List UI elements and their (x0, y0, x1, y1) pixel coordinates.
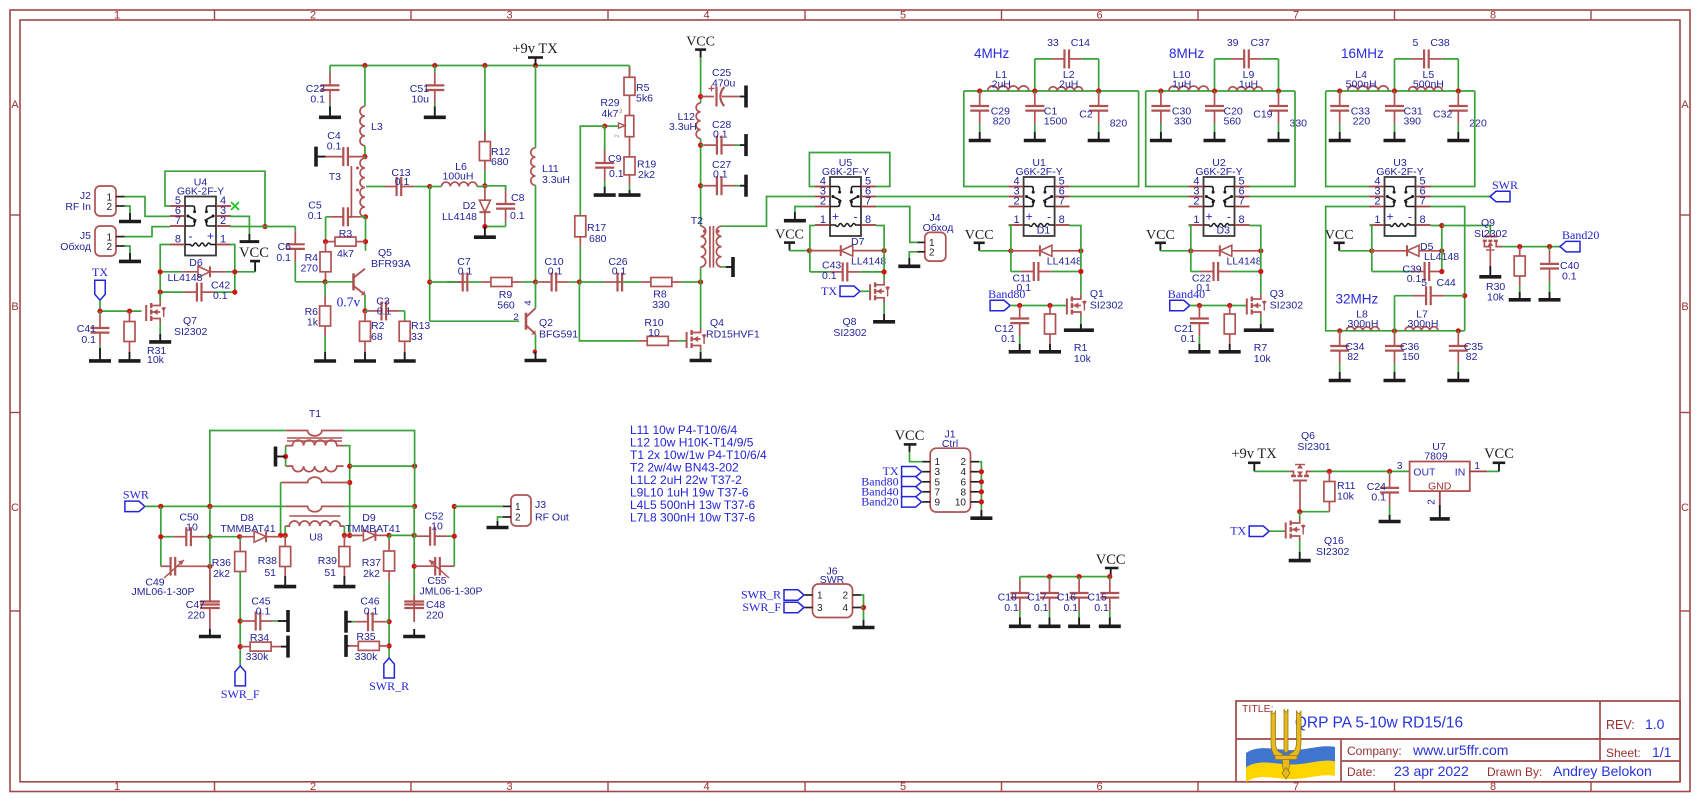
capacitor C10 (536, 273, 580, 292)
junction (1547, 244, 1552, 249)
svg-text:10u: 10u (411, 94, 429, 106)
wire (209, 506, 211, 536)
ground (119, 213, 141, 222)
global label SWR_F (235, 666, 246, 686)
svg-text:2: 2 (106, 242, 112, 253)
ground (119, 253, 141, 261)
resistor R7 (1224, 306, 1235, 345)
svg-text:OUT: OUT (1413, 467, 1436, 479)
svg-text:REV:: REV: (1606, 718, 1635, 732)
svg-text:2: 2 (1374, 196, 1380, 208)
capacitor C15 (1100, 577, 1119, 618)
transistor Q7 (146, 301, 166, 323)
svg-text:1.0: 1.0 (1645, 716, 1665, 732)
svg-text:VCC: VCC (239, 245, 269, 261)
capacitor C24 (1380, 471, 1399, 515)
transformer T3 (351, 158, 365, 218)
svg-text:10: 10 (186, 522, 198, 534)
junction (412, 533, 417, 538)
transistor Q7 labels (174, 315, 207, 338)
wire (700, 58, 702, 103)
svg-text:10k: 10k (1254, 353, 1272, 365)
svg-text:SI2302: SI2302 (1090, 300, 1123, 312)
svg-text:1: 1 (1474, 461, 1480, 472)
svg-text:T3: T3 (329, 171, 341, 183)
resistor R36 (235, 537, 246, 572)
svg-text:82: 82 (1347, 351, 1359, 363)
svg-text:-: - (854, 210, 858, 224)
svg-text:560: 560 (497, 300, 515, 312)
svg-text:VCC: VCC (1325, 228, 1354, 243)
diode D3 (1191, 245, 1261, 256)
relay U2 pin numbers (1193, 176, 1244, 227)
resistor R37 (384, 535, 395, 581)
svg-text:5k6: 5k6 (636, 93, 653, 105)
svg-text:SI2302: SI2302 (833, 327, 866, 339)
svg-text:R3: R3 (339, 228, 353, 240)
svg-text:1: 1 (515, 502, 521, 513)
wire (145, 505, 285, 507)
resistor R37 labels (362, 557, 381, 580)
svg-text:SWR: SWR (820, 574, 845, 586)
wire (921, 481, 924, 483)
ground (1088, 132, 1110, 141)
svg-text:BFG591: BFG591 (539, 329, 578, 341)
resistor R39 (339, 535, 350, 576)
wire (344, 446, 350, 536)
wire (125, 197, 171, 217)
svg-text:C9: C9 (608, 153, 622, 165)
inductor L5 labels (1413, 69, 1444, 91)
diode D3 labels (1217, 225, 1262, 268)
resistor R31 labels (147, 345, 166, 366)
wire (1160, 250, 1190, 252)
capacitor C2 (1089, 91, 1108, 132)
svg-text:Band20: Band20 (1562, 228, 1599, 242)
wire (1487, 470, 1499, 472)
capacitor C24 labels (1367, 481, 1386, 504)
global label TX (902, 466, 922, 477)
svg-text:D6: D6 (189, 257, 203, 269)
svg-text:0.1: 0.1 (364, 606, 379, 618)
wire (1189, 226, 1191, 272)
svg-text:2: 2 (929, 248, 935, 259)
capacitor C3 (365, 301, 405, 320)
wire (1254, 470, 1289, 472)
svg-text:J3: J3 (535, 499, 546, 511)
svg-text:G6K-2F-Y: G6K-2F-Y (177, 186, 224, 198)
svg-text:VCC: VCC (965, 228, 994, 243)
capacitor C19 labels (1253, 109, 1307, 130)
relay U4 (170, 197, 231, 256)
diode D9 (350, 530, 389, 541)
frame column ticks (215, 10, 1592, 792)
transformer U8 secondary (285, 521, 344, 526)
wire (1070, 91, 1139, 187)
junction (977, 88, 982, 93)
junction (698, 143, 703, 148)
capacitor C52 (414, 527, 454, 546)
svg-text:Q1: Q1 (1090, 288, 1104, 300)
junction (1517, 244, 1522, 249)
inductor L7 labels (1408, 309, 1439, 331)
svg-text:33: 33 (1047, 37, 1059, 49)
capacitor C16 (1070, 577, 1089, 618)
resistor R13 labels (411, 320, 430, 343)
svg-text:GND: GND (1428, 481, 1452, 493)
ground (1009, 344, 1031, 352)
ground (1509, 292, 1531, 300)
capacitor C50 labels (179, 512, 198, 534)
wire (921, 491, 924, 493)
svg-text:6: 6 (1096, 781, 1102, 793)
ground (1268, 132, 1290, 141)
junction (158, 269, 163, 274)
capacitor C11 labels (1013, 273, 1032, 295)
svg-text:1uH: 1uH (1172, 79, 1191, 91)
wire (230, 226, 295, 228)
junction (698, 279, 703, 284)
svg-text:500nH: 500nH (1413, 79, 1444, 91)
capacitor C17 (1040, 577, 1059, 618)
capacitor C36 labels (1400, 341, 1420, 363)
junction (452, 534, 457, 539)
wire (1070, 226, 1081, 295)
svg-text:1: 1 (820, 214, 826, 226)
transistor Q16 labels (1316, 535, 1349, 558)
svg-text:5: 5 (900, 9, 906, 21)
junction (1392, 88, 1397, 93)
capacitor C23 (321, 66, 340, 107)
svg-text:6: 6 (1096, 9, 1102, 21)
svg-text:2: 2 (310, 781, 316, 793)
svg-text:0.1: 0.1 (1407, 273, 1422, 285)
wire (389, 534, 414, 536)
wire (388, 581, 390, 658)
svg-text:U8: U8 (309, 532, 323, 544)
relay U1 labels (1015, 157, 1062, 178)
junction (1197, 303, 1202, 308)
inductor L7 (1405, 327, 1438, 331)
ground (1447, 132, 1469, 141)
svg-text:0.1: 0.1 (612, 266, 627, 278)
capacitor C10 labels (544, 256, 563, 278)
svg-text:T2: T2 (691, 215, 703, 227)
svg-text:2: 2 (515, 513, 521, 524)
svg-text:2k2: 2k2 (638, 169, 655, 181)
connector J4 (917, 232, 946, 261)
svg-text:0.1: 0.1 (276, 252, 291, 264)
junction (602, 124, 607, 129)
junction (232, 269, 237, 274)
svg-text:2uH: 2uH (1059, 79, 1078, 91)
wire (447, 281, 458, 283)
capacitor C7 labels (457, 256, 472, 278)
resistor R6 (320, 282, 331, 352)
junction (1158, 88, 1163, 93)
svg-text:7: 7 (1059, 196, 1065, 208)
power VCC (1155, 243, 1166, 251)
svg-text:0.1: 0.1 (1034, 602, 1049, 614)
svg-text:SWR_F: SWR_F (742, 600, 781, 614)
svg-text:RD15HVF1: RD15HVF1 (706, 329, 760, 341)
wire (485, 226, 506, 228)
svg-text:4: 4 (523, 300, 534, 305)
svg-text:SI2302: SI2302 (1316, 546, 1349, 558)
svg-text:TX: TX (821, 284, 837, 298)
capacitor C17 labels (1027, 592, 1048, 615)
svg-text:470u: 470u (712, 78, 736, 90)
junction (363, 214, 368, 219)
global label TX (1249, 526, 1269, 537)
wire (580, 126, 604, 216)
capacitor C32 (1449, 91, 1468, 132)
svg-text:SI2302: SI2302 (1270, 300, 1303, 312)
frame column numbers (114, 9, 1496, 793)
ground (853, 620, 875, 628)
wire (979, 481, 981, 483)
junction (323, 239, 328, 244)
svg-text:820: 820 (1110, 118, 1128, 130)
svg-text:4: 4 (842, 603, 848, 614)
svg-text:10k: 10k (1074, 353, 1092, 365)
svg-text:Q3: Q3 (1270, 288, 1284, 300)
capacitor C49 (variable) (161, 557, 210, 578)
wire (979, 471, 981, 473)
svg-text:0.1: 0.1 (1063, 602, 1078, 614)
capacitor C29 labels (991, 106, 1011, 128)
junction (577, 279, 582, 284)
svg-text:Drawn By:: Drawn By: (1487, 765, 1542, 779)
diode D1 (1011, 245, 1081, 256)
capacitor C27 (701, 176, 740, 195)
svg-text:150: 150 (1402, 351, 1420, 363)
diode D2 labels (442, 200, 477, 223)
wire (579, 282, 629, 341)
ground (1024, 132, 1046, 141)
capacitor C26 (579, 273, 622, 292)
wire (910, 452, 923, 462)
svg-text:TX: TX (92, 265, 108, 279)
capacitor C20 labels (1224, 106, 1243, 128)
resistor R1 (1045, 306, 1056, 345)
resistor R11 labels (1337, 480, 1356, 503)
resistor R5 labels (636, 82, 653, 105)
junction (323, 279, 328, 284)
global label TX (95, 280, 106, 300)
svg-text:VCC: VCC (1146, 228, 1175, 243)
capacitor C42 (160, 283, 235, 302)
ground (1244, 324, 1274, 330)
capacitor C21 (1190, 306, 1209, 345)
capacitor C34 (1330, 331, 1349, 372)
wire (210, 431, 286, 507)
svg-text:Andrey Belokon: Andrey Belokon (1553, 763, 1652, 779)
svg-text:68: 68 (371, 331, 383, 343)
svg-text:0.1: 0.1 (510, 210, 525, 222)
svg-text:8: 8 (1059, 214, 1065, 226)
capacitor C25 labels (712, 67, 736, 90)
svg-text:680: 680 (589, 233, 607, 245)
capacitor C2 labels (1079, 109, 1127, 130)
svg-text:0.1: 0.1 (1004, 602, 1019, 614)
svg-text:D7: D7 (851, 236, 865, 248)
global label SWR_R (384, 658, 395, 678)
capacitor C26 labels (608, 256, 627, 278)
capacitor C14 labels (1047, 37, 1090, 49)
junction (979, 499, 984, 504)
wire (629, 66, 631, 78)
wire (330, 65, 630, 67)
capacitor C35 (1449, 331, 1468, 372)
capacitor C51 labels (410, 83, 429, 106)
wire (413, 506, 415, 621)
transistor Q6 (1289, 464, 1311, 512)
transistor Q4 (687, 328, 707, 350)
svg-text:8: 8 (1490, 781, 1496, 793)
svg-text:1: 1 (220, 234, 226, 246)
capacitor C21 labels (1174, 323, 1195, 345)
junction (1439, 248, 1444, 253)
resistor R36 labels (212, 557, 231, 580)
junction (482, 183, 487, 188)
wire (1009, 226, 1011, 272)
capacitor C33 (1330, 91, 1349, 132)
junction (412, 564, 417, 569)
wire (1020, 576, 1111, 578)
capacitor C30 (1151, 91, 1170, 132)
ground (199, 629, 221, 637)
svg-text:G6K-2F-Y: G6K-2F-Y (822, 166, 869, 178)
svg-text:2: 2 (106, 202, 112, 213)
inductor L4 (1348, 86, 1389, 91)
wire (364, 157, 366, 159)
diode D5 (1372, 245, 1442, 256)
svg-text:1: 1 (114, 781, 120, 793)
capacitor C40 labels (1560, 260, 1579, 283)
svg-text:4k7: 4k7 (602, 108, 619, 120)
ground (970, 510, 992, 518)
junction (1369, 248, 1374, 253)
wire (280, 483, 282, 536)
resistor R4 (320, 242, 331, 282)
wire (100, 300, 142, 311)
ground (740, 175, 746, 197)
inductor L12 (696, 103, 700, 139)
ground (319, 106, 341, 117)
ground (1039, 344, 1061, 352)
resistor R35 (349, 641, 390, 650)
wire (160, 245, 170, 302)
svg-text:TX: TX (1230, 524, 1246, 538)
resistor R7 labels (1254, 342, 1272, 365)
wire (722, 266, 727, 268)
wire (1370, 226, 1372, 272)
capacitor C46 labels (360, 596, 379, 618)
wire (1326, 90, 1475, 92)
svg-text:0.1: 0.1 (713, 129, 728, 141)
svg-text:Date:: Date: (1347, 765, 1376, 779)
transistor Q9 (1483, 234, 1502, 266)
wire (295, 281, 325, 283)
wire (1339, 250, 1372, 252)
svg-text:1k: 1k (307, 317, 319, 329)
wire (1502, 246, 1560, 248)
wire (1326, 91, 1370, 187)
capacitor C40 (1540, 247, 1559, 292)
ground (1219, 344, 1241, 352)
svg-text:0.1: 0.1 (609, 168, 624, 180)
resistor R12 (479, 130, 490, 186)
ground (89, 348, 111, 361)
svg-text:+: + (1205, 210, 1212, 224)
svg-text:560: 560 (1224, 116, 1242, 128)
svg-text:BFR93A: BFR93A (371, 258, 411, 270)
ground (403, 629, 425, 637)
relay U5 pin numbers (820, 176, 871, 227)
junction (698, 183, 703, 188)
resistor R19 labels (637, 159, 656, 182)
capacitor C19 (1269, 91, 1288, 132)
capacitor C3 labels (376, 296, 391, 318)
wire (1300, 511, 1330, 513)
svg-text:300nH: 300nH (1408, 318, 1439, 330)
ground (333, 576, 355, 587)
wire (285, 446, 287, 467)
resistor R31 (124, 311, 135, 352)
svg-text:8: 8 (1420, 214, 1426, 226)
capacitor C29 (970, 91, 989, 132)
ground (149, 334, 171, 342)
capacitor C18 labels (998, 592, 1019, 615)
transistor Q8 labels (833, 316, 866, 339)
svg-text:1: 1 (1013, 214, 1019, 226)
wire (700, 350, 702, 356)
svg-text:7: 7 (1293, 9, 1299, 21)
power VCC (C15 rail) (1105, 568, 1119, 577)
junction (1212, 88, 1217, 93)
transformer U8 core (289, 515, 340, 517)
resistor R8 labels (652, 289, 670, 312)
junction (387, 533, 392, 538)
resistor R9 (467, 278, 535, 287)
wire (1311, 470, 1410, 472)
resistor R2 (360, 311, 371, 352)
wire (429, 187, 431, 322)
connector J6 labels (820, 566, 845, 587)
resistor R19 (624, 147, 635, 190)
svg-text:SI2302: SI2302 (174, 326, 207, 338)
wire (876, 207, 917, 243)
wire (604, 126, 606, 163)
junction (1337, 88, 1342, 93)
ground (487, 521, 509, 528)
relay U1 pin numbers (1013, 176, 1064, 227)
ground (594, 187, 616, 196)
svg-text:2uH: 2uH (992, 79, 1011, 91)
svg-text:Sheet:: Sheet: (1606, 746, 1641, 760)
svg-text:C37: C37 (1251, 37, 1270, 49)
svg-text:330: 330 (652, 299, 670, 311)
svg-text:Обход: Обход (923, 222, 954, 234)
resistor R17 labels (587, 222, 607, 245)
junction (283, 454, 288, 459)
junction (207, 504, 212, 509)
ground (1384, 132, 1406, 141)
svg-text:2k2: 2k2 (213, 568, 230, 580)
connector J1 labels (942, 429, 958, 450)
svg-text:C44: C44 (1437, 277, 1456, 289)
